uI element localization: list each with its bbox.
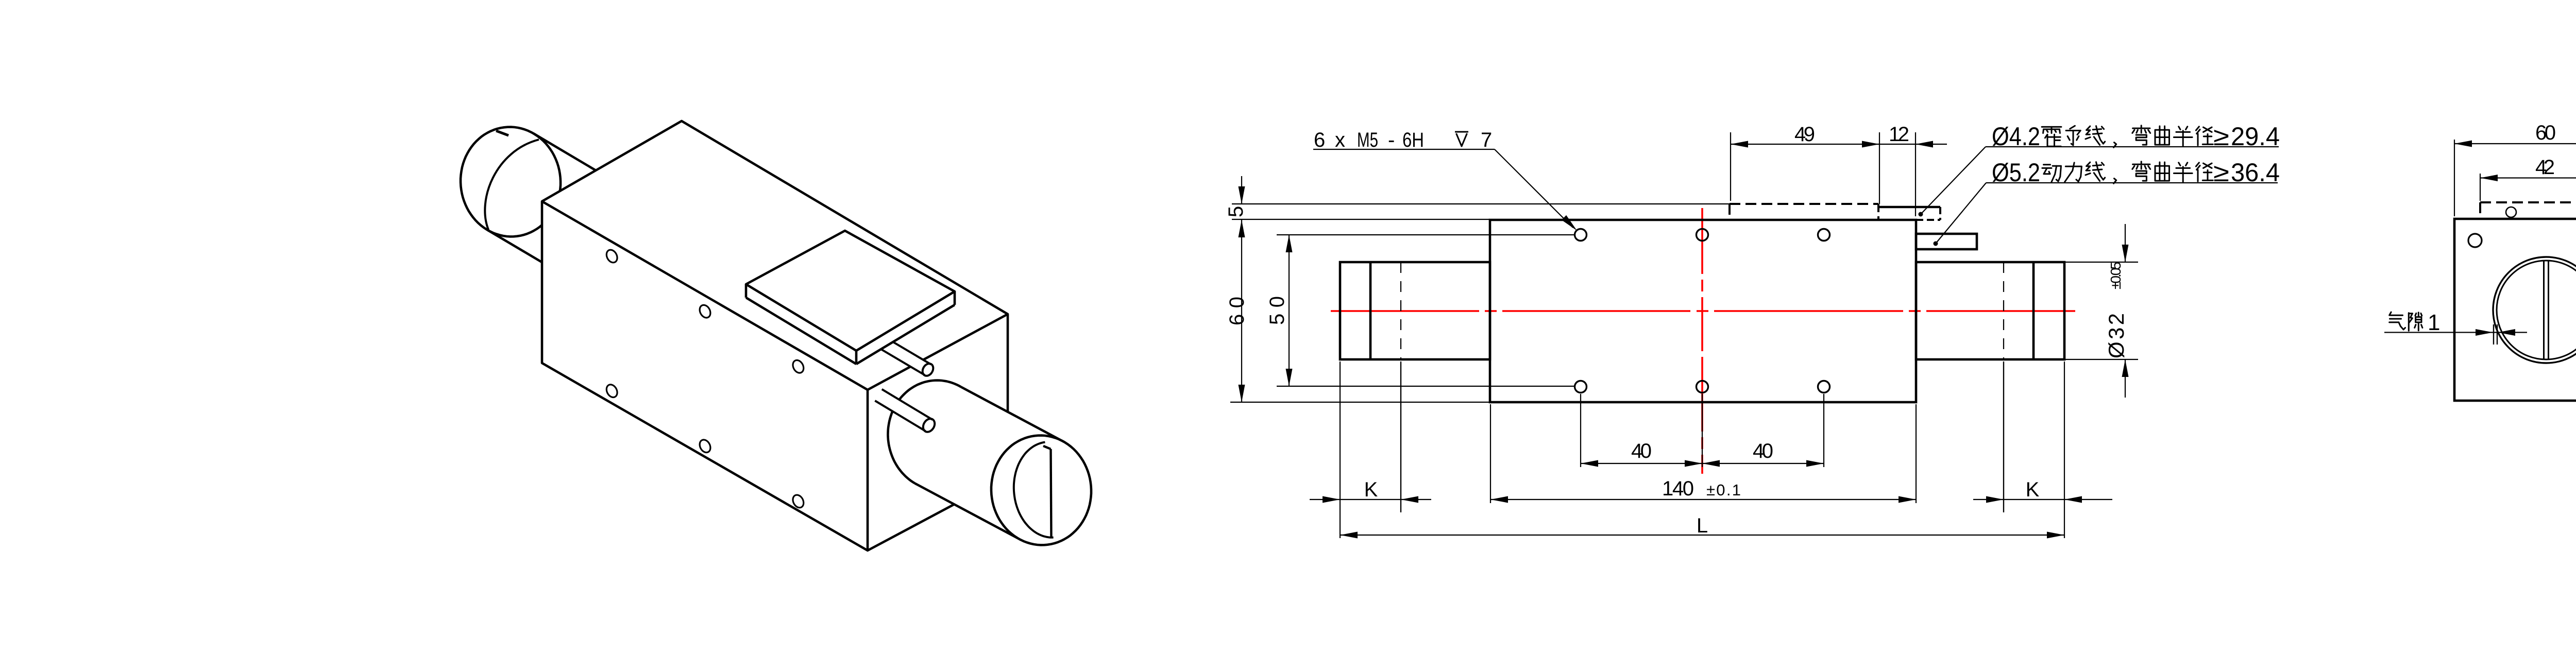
svg-text:L: L xyxy=(1697,514,1708,537)
svg-text:40: 40 xyxy=(1631,440,1652,462)
svg-text:42: 42 xyxy=(2535,156,2555,179)
svg-text:6: 6 xyxy=(1314,129,1325,151)
svg-text:M5: M5 xyxy=(1357,129,1378,151)
svg-text:12: 12 xyxy=(1889,123,1909,146)
svg-text:40: 40 xyxy=(1753,440,1773,462)
svg-text:7: 7 xyxy=(1481,129,1492,151)
svg-text:x: x xyxy=(1335,129,1345,151)
svg-text:≥: ≥ xyxy=(2213,122,2229,151)
svg-text:±0.1: ±0.1 xyxy=(1706,481,1741,499)
svg-text:36.4: 36.4 xyxy=(2231,158,2280,187)
svg-text:Ø5.2: Ø5.2 xyxy=(1992,158,2040,187)
svg-text:1: 1 xyxy=(2428,310,2440,335)
svg-text:140: 140 xyxy=(1662,477,1694,500)
svg-text:Ø32: Ø32 xyxy=(2104,313,2128,358)
svg-text:49: 49 xyxy=(1794,123,1815,146)
svg-text:±0.05: ±0.05 xyxy=(2108,262,2124,289)
svg-text:6H: 6H xyxy=(1402,129,1424,151)
svg-text:-: - xyxy=(1388,129,1395,151)
svg-text:K: K xyxy=(1364,478,1378,501)
svg-text:60: 60 xyxy=(2535,122,2556,144)
svg-text:29.4: 29.4 xyxy=(2231,122,2280,151)
svg-text:5: 5 xyxy=(1225,206,1247,217)
svg-text:≥: ≥ xyxy=(2213,158,2229,187)
svg-text:Ø4.2: Ø4.2 xyxy=(1992,122,2040,151)
svg-text:K: K xyxy=(2026,478,2040,501)
